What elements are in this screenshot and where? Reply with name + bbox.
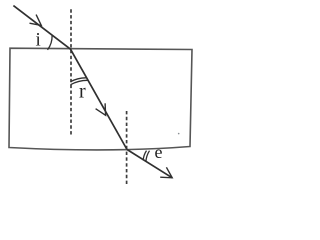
- normal at exit (dashed): [126, 111, 128, 184]
- refracted ray: [71, 49, 128, 149]
- svg-text:i: i: [36, 30, 41, 51]
- angle e arcs (double): [143, 151, 146, 161]
- glass slab rectangle: [9, 48, 192, 150]
- angle r arcs (double): [71, 78, 87, 82]
- angle i arc: [48, 35, 53, 50]
- arrowhead on refracted ray: [96, 103, 106, 115]
- arrowhead on emergent ray: [160, 167, 172, 178]
- svg-text:e: e: [155, 142, 163, 162]
- emergent ray: [127, 150, 172, 178]
- normal at entry (dashed): [70, 9, 72, 135]
- svg-text:r: r: [79, 81, 86, 103]
- incident ray: [13, 6, 70, 50]
- arrowhead on incident ray: [30, 15, 42, 26]
- paper speck: [178, 133, 180, 135]
